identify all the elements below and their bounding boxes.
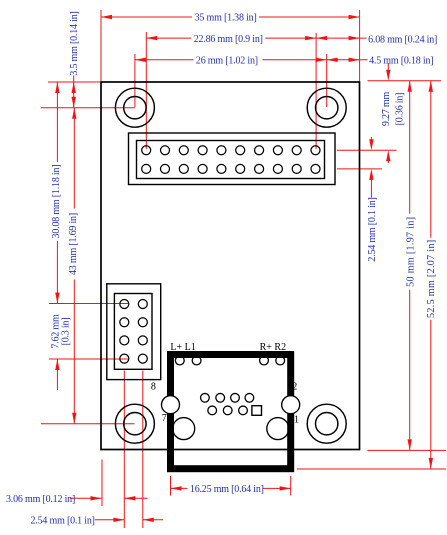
dimension 16.25 mm — [171, 487, 291, 489]
svg-text:[0.36 in]: [0.36 in] — [395, 93, 406, 126]
svg-text:R+ R2: R+ R2 — [260, 342, 286, 353]
svg-text:26 mm [1.02 in]: 26 mm [1.02 in] — [196, 56, 258, 67]
extension line top hole centerline left — [41, 107, 135, 109]
svg-text:8: 8 — [151, 381, 156, 392]
RJ45 LED pin R+ — [260, 356, 269, 365]
svg-text:22.86 mm [0.9 in]: 22.86 mm [0.9 in] — [194, 34, 263, 45]
RJ45 connector J3 body — [171, 355, 291, 469]
svg-text:2.54 mm [0.1 in]: 2.54 mm [0.1 in] — [367, 197, 378, 261]
extension line J2 col2 down — [142, 371, 144, 529]
svg-text:4.5 mm [0.18 in]: 4.5 mm [0.18 in] — [369, 55, 433, 66]
svg-text:35 mm [1.38 in]: 35 mm [1.38 in] — [195, 12, 257, 23]
dimension 43 mm vertical — [73, 108, 75, 424]
extension line hole H1 center — [134, 54, 136, 107]
extension line J2 col1 down — [123, 371, 125, 529]
extension line board top edge right — [368, 80, 442, 82]
extension line RJ45 left edge down — [170, 476, 172, 496]
RJ45 boss hole right — [267, 418, 289, 440]
extension line hole H2 center — [326, 54, 328, 107]
RJ45 LED pin R2 — [276, 356, 285, 365]
dimension 3.5 mm vertical — [73, 75, 75, 108]
RJ45 signal pins row 1 — [201, 393, 254, 402]
dimension 2.54 mm vertical — [370, 137, 372, 145]
svg-text:L+ L1: L+ L1 — [170, 342, 195, 353]
dimension 2.54 mm bottom — [95, 519, 124, 521]
RJ45 signal pins row 2 — [208, 406, 248, 415]
svg-text:1: 1 — [294, 415, 299, 426]
dimension 6.08 mm — [316, 37, 366, 39]
header J2 outline 2x4 — [107, 284, 161, 380]
RJ45 mounting post left — [162, 396, 180, 414]
svg-text:52.5 mm [2.07 in]: 52.5 mm [2.07 in] — [426, 239, 437, 317]
svg-text:9.27 mm: 9.27 mm — [381, 92, 392, 127]
svg-text:6.08 mm [0.24 in]: 6.08 mm [0.24 in] — [368, 34, 437, 45]
svg-text:3.5 mm [0.14 in]: 3.5 mm [0.14 in] — [69, 11, 80, 75]
RJ45 LED pin L+ — [175, 356, 184, 365]
extension line board top edge left — [48, 81, 100, 83]
extension line board right edge top — [359, 10, 361, 81]
extension line J1 col1 — [145, 32, 147, 149]
dimension 30.08 mm vertical — [56, 82, 58, 304]
dimension 4.5 mm — [327, 59, 368, 61]
dimension 35 mm — [101, 16, 360, 18]
extension line J1 row1 right — [337, 149, 397, 151]
svg-text:[0.3 in]: [0.3 in] — [61, 318, 72, 346]
mounting hole H1 top-left — [115, 88, 154, 127]
svg-text:7: 7 — [162, 413, 167, 424]
svg-text:2: 2 — [292, 381, 297, 392]
header J2 pins — [120, 300, 148, 364]
svg-text:30.08 mm [1.18 in]: 30.08 mm [1.18 in] — [51, 165, 62, 239]
mounting hole H3 bottom-left — [115, 404, 154, 443]
extension line board bottom right — [368, 449, 447, 451]
svg-text:16.25 mm [0.64 in]: 16.25 mm [0.64 in] — [190, 484, 264, 495]
dimension 7.62 mm vertical — [56, 359, 58, 390]
header J1 pins — [142, 146, 320, 174]
extension line RJ45 bottom right — [297, 468, 446, 470]
header J1 outline 2x10 — [129, 133, 336, 185]
dimension 3.06 mm — [70, 497, 102, 499]
extension line J1 row2 right — [337, 168, 382, 170]
dimension 22.86 mm — [146, 37, 316, 39]
RJ45 mounting post right — [282, 396, 300, 414]
svg-text:43 mm [1.69 in]: 43 mm [1.69 in] — [68, 213, 79, 275]
extension line J2 row1 — [49, 303, 129, 305]
mounting hole H2 top-right — [307, 88, 346, 127]
mounting hole H4 bottom-right — [307, 404, 346, 443]
svg-text:2.54 mm [0.1 in]: 2.54 mm [0.1 in] — [31, 515, 95, 526]
board outline — [101, 82, 360, 450]
dimension 50 mm vertical — [409, 81, 411, 451]
RJ45 pin 8 square pad — [252, 406, 262, 416]
RJ45 LED pin L1 — [192, 356, 201, 365]
extension line J1 col10 — [315, 33, 317, 149]
extension line J2 row4 — [49, 358, 129, 360]
svg-text:50 mm [1.97 in]: 50 mm [1.97 in] — [406, 217, 417, 287]
dimension 9.27 mm vertical — [387, 63, 389, 76]
RJ45 boss hole left — [173, 418, 195, 440]
extension line bottom hole centerline — [41, 423, 135, 425]
svg-text:3.06 mm [0.12 in]: 3.06 mm [0.12 in] — [6, 494, 75, 505]
dimension 26 mm — [135, 59, 327, 61]
extension line board left edge top — [100, 10, 102, 81]
extension line RJ45 right edge down — [290, 476, 292, 496]
dimension 52.5 mm vertical — [430, 81, 432, 469]
extension line board left edge bottom — [101, 460, 103, 507]
